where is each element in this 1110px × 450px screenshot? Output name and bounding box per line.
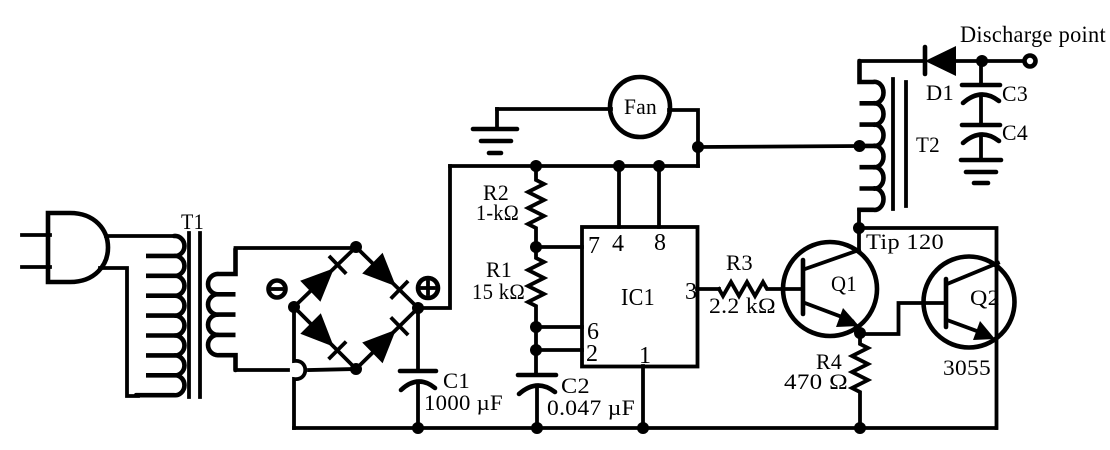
transformer T2 core [893, 79, 906, 209]
svg-text:0.047 µF: 0.047 µF [547, 395, 635, 420]
wire: T1 secondary top to bridge top node [236, 248, 357, 250]
svg-text:T2: T2 [916, 132, 940, 157]
svg-text:1000 µF: 1000 µF [424, 390, 503, 415]
resistor R3 [719, 282, 800, 296]
resistor R2 [528, 166, 544, 247]
wire: plug to T1 primary top [106, 234, 174, 238]
wire: bridge diamond upper-right edge [356, 247, 418, 308]
svg-text:4: 4 [612, 231, 624, 257]
bridge diode lower-right [362, 319, 407, 364]
wire: junction to pin 6 [536, 325, 582, 329]
wire: Q1 emitter to Q2 base [860, 303, 946, 334]
wire: bridge diamond lower-left edge [294, 307, 356, 369]
node: bridge top [350, 241, 362, 253]
resistor R1 [528, 247, 544, 373]
svg-text:D1: D1 [926, 80, 954, 105]
node: Q1 emitter junction [854, 327, 866, 339]
node: T2 center tap [854, 140, 866, 152]
ground (fan supply) [473, 109, 517, 153]
bridge diode upper-left [300, 257, 345, 301]
node: bridge right [412, 302, 424, 314]
wire: pin 3 to R3 [697, 287, 719, 291]
diode D1 [925, 46, 956, 76]
svg-text:15 kΩ: 15 kΩ [472, 279, 525, 304]
wire: V+ bus [450, 164, 698, 168]
wire: C2 to ground bus [535, 387, 539, 428]
bridge diode upper-right [362, 253, 407, 297]
negative terminal symbol [269, 281, 286, 298]
node: bridge left [288, 301, 300, 313]
transformer T1 primary winding [136, 236, 184, 395]
node: bridge bottom [350, 363, 362, 375]
svg-text:3: 3 [685, 279, 697, 305]
svg-text:C3: C3 [1002, 81, 1028, 106]
wire: C1 to ground bus [416, 382, 420, 428]
wire: hop continuation to bridge bottom node [309, 369, 356, 370]
transformer T1 secondary winding [208, 249, 235, 370]
wire: fan branch to T2 center tap [698, 146, 859, 147]
wire: bridge negative output down to ground bus (with hop) [294, 307, 305, 428]
wire: T2 bottom to Q2 collector line [859, 228, 997, 428]
wire: pin 8 to V+ bus [657, 166, 661, 227]
node: C1 on ground bus [412, 422, 424, 434]
positive terminal symbol [418, 278, 438, 298]
wire: bridge diamond upper-left edge [294, 247, 356, 307]
svg-text:R3: R3 [726, 250, 753, 275]
node: pin 2 junction [530, 344, 542, 356]
wire: junction to C3 [979, 61, 983, 84]
svg-text:C4: C4 [1002, 120, 1028, 145]
svg-text:2.2 kΩ: 2.2 kΩ [709, 293, 776, 318]
fan motor [610, 77, 670, 137]
svg-text:8: 8 [654, 230, 666, 256]
wire: pin 4 to V+ bus [617, 166, 621, 227]
wire: ground to fan [497, 107, 611, 111]
wire: bridge positive output up to V+ bus [418, 166, 450, 308]
svg-text:3055: 3055 [943, 355, 991, 380]
node: pin 8 on bus [653, 160, 665, 172]
IC1 box [582, 227, 698, 367]
wire: Q1 collector to T2 bottom [857, 210, 861, 250]
capacitor C4 [962, 125, 1000, 143]
wire: bridge diamond lower-right edge [356, 308, 418, 369]
resistor R4 [852, 333, 868, 428]
transistor Q2 [924, 257, 1015, 348]
capacitor C3 [962, 85, 1000, 103]
svg-text:470 Ω: 470 Ω [784, 369, 848, 394]
AC plug P1 body [48, 213, 108, 282]
discharge point terminal [1025, 56, 1036, 67]
transformer T2 winding [860, 61, 884, 210]
svg-text:Tip 120: Tip 120 [866, 229, 944, 254]
node: R4 on ground bus [854, 422, 866, 434]
wire: T1 secondary bottom to bridge bottom node [236, 368, 289, 370]
capacitor C1 [400, 371, 436, 390]
wire: T2 top to D1 [860, 59, 926, 63]
wire: fan to T2 tap corner [669, 110, 698, 166]
svg-text:T1: T1 [181, 209, 204, 234]
node: fan branch [692, 141, 704, 153]
svg-text:1-kΩ: 1-kΩ [476, 200, 519, 225]
wire: bridge right node to C1 [416, 308, 420, 369]
wire: C4 to ground [979, 136, 983, 159]
wire: plug to T1 primary bottom [100, 268, 138, 396]
wire: C3 to C4 [979, 96, 983, 124]
capacitor C2 [518, 375, 556, 394]
svg-text:Q2: Q2 [970, 285, 1000, 310]
node: T2 bottom / collector junction [853, 222, 865, 234]
svg-text:Discharge point: Discharge point [960, 22, 1106, 47]
wire: pin 1 to ground bus [641, 366, 645, 428]
ground bus wire [294, 426, 996, 430]
svg-text:Q1: Q1 [831, 271, 857, 296]
svg-text:2: 2 [586, 341, 598, 367]
wire: D1 to discharge terminal [956, 59, 1024, 63]
node: pin 4 on bus [613, 160, 625, 172]
node: C3 junction [976, 55, 988, 67]
node: pin 1 on ground bus [637, 422, 649, 434]
bridge diode lower-left [300, 313, 345, 358]
node: R2 top on bus [530, 160, 542, 172]
wire: junction to pin 7 [536, 245, 582, 249]
svg-text:Fan: Fan [624, 94, 657, 119]
svg-text:7: 7 [588, 233, 600, 259]
ground (under C4) [961, 160, 1001, 183]
node: C2 on ground bus [531, 422, 543, 434]
transformer T1 core [189, 233, 200, 397]
AC plug P1 prongs [22, 235, 50, 267]
wire: Q1 emitter junction [853, 322, 860, 333]
transistor Q1 [783, 242, 877, 336]
node: R2/R1/pin7 junction [530, 241, 542, 253]
wire: junction to pin 2 [536, 348, 582, 352]
svg-text:IC1: IC1 [621, 285, 655, 311]
node: pin 6 junction [530, 321, 542, 333]
svg-text:1: 1 [639, 343, 651, 369]
